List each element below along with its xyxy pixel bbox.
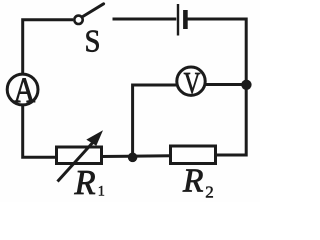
battery long thin plate (positive): [177, 4, 179, 36]
ammeter A circle: [7, 74, 38, 105]
switch S pivot contact circle: [74, 16, 82, 24]
voltmeter V circle: [177, 67, 205, 95]
wire: junction node up to voltmeter left lead: [133, 85, 177, 157]
svg-text:A: A: [14, 70, 36, 110]
node: junction between R1 and R2: [128, 153, 138, 163]
wire: switch left terminal to top-left corner, down left side, to R1 left lead: [23, 20, 73, 158]
node: junction on right wire at voltmeter branch: [241, 80, 251, 90]
svg-text:1: 1: [98, 184, 105, 200]
svg-text:V: V: [184, 66, 201, 100]
resistor R2 body: [171, 146, 216, 164]
wire: switch right terminal to battery negative plate: [113, 18, 177, 21]
switch S lever arm: [83, 4, 104, 17]
wire: battery to top-right corner, down right side, to R2 right lead: [188, 19, 247, 155]
battery short thick plate (negative): [183, 10, 188, 29]
resistor R1 rheostat body: [57, 147, 102, 164]
resistor R1 arrowhead: [86, 130, 103, 146]
svg-text:2: 2: [205, 183, 214, 202]
resistor R1 arrow shaft: [58, 140, 96, 182]
wire: R1 right lead to R2 left lead: [101, 154, 171, 158]
svg-text:R: R: [74, 164, 96, 202]
wire: voltmeter right lead to right-side node: [205, 83, 246, 86]
svg-text:S: S: [85, 23, 101, 58]
svg-text:R: R: [182, 163, 203, 200]
